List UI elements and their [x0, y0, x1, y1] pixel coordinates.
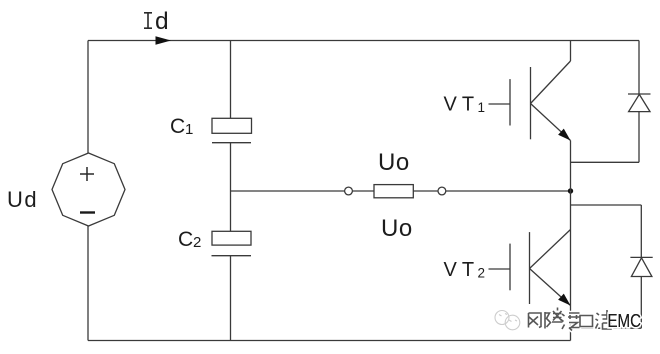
svg-text:Uo: Uo — [378, 149, 410, 176]
wire VT2 vertical — [570, 191, 572, 341]
load resistor Uo — [374, 185, 413, 198]
svg-text:1: 1 — [185, 121, 193, 138]
wire left rail upper — [87, 41, 89, 154]
wire capacitor branch bottom — [230, 256, 232, 341]
capacitor C2 — [212, 231, 251, 245]
wire VT2 diode branch lower — [571, 327, 642, 329]
svg-text:C: C — [170, 115, 185, 138]
node midpoint junction — [568, 188, 573, 193]
capacitor C1 — [212, 118, 252, 133]
wire VT2 diode branch upper — [571, 204, 642, 206]
wire — [352, 190, 374, 192]
svg-text:EMC: EMC — [608, 311, 642, 331]
wire — [413, 190, 438, 192]
wire — [640, 277, 642, 329]
wire capacitor branch top — [230, 41, 232, 119]
svg-text:VT: VT — [444, 259, 480, 281]
current arrow Id — [156, 36, 172, 45]
wire — [640, 205, 642, 257]
diode VD1 — [628, 94, 651, 112]
watermark text 风陵渡口话EMC — [529, 308, 613, 331]
transistor VT2 — [489, 230, 571, 306]
wire right rail top — [638, 41, 640, 95]
watermark logo — [495, 311, 520, 330]
svg-text:d: d — [155, 8, 169, 35]
svg-text:Uo: Uo — [381, 215, 413, 242]
wire VT1 collector stub — [570, 41, 572, 62]
wire top rail — [88, 40, 639, 42]
wire middle rail right — [446, 190, 571, 192]
wire bottom rail — [88, 340, 571, 342]
diode VD2 — [630, 257, 652, 276]
wire middle rail left — [231, 190, 345, 192]
wire — [638, 112, 640, 163]
svg-text:2: 2 — [478, 266, 486, 281]
svg-text:2: 2 — [193, 234, 201, 251]
wire VT1 diode branch — [571, 161, 640, 163]
wire between capacitors — [230, 143, 232, 232]
terminal right — [438, 187, 446, 195]
terminal left — [345, 187, 353, 195]
svg-text:VT: VT — [444, 94, 480, 116]
label Id — [144, 13, 152, 28]
svg-text:1: 1 — [478, 100, 486, 115]
wire VT1 emitter stub — [570, 141, 572, 192]
svg-text:C: C — [178, 228, 193, 251]
svg-text:Ud: Ud — [7, 187, 38, 212]
voltage source Ud — [52, 153, 125, 226]
wire left rail lower — [87, 226, 89, 341]
transistor VT1 — [489, 61, 571, 141]
